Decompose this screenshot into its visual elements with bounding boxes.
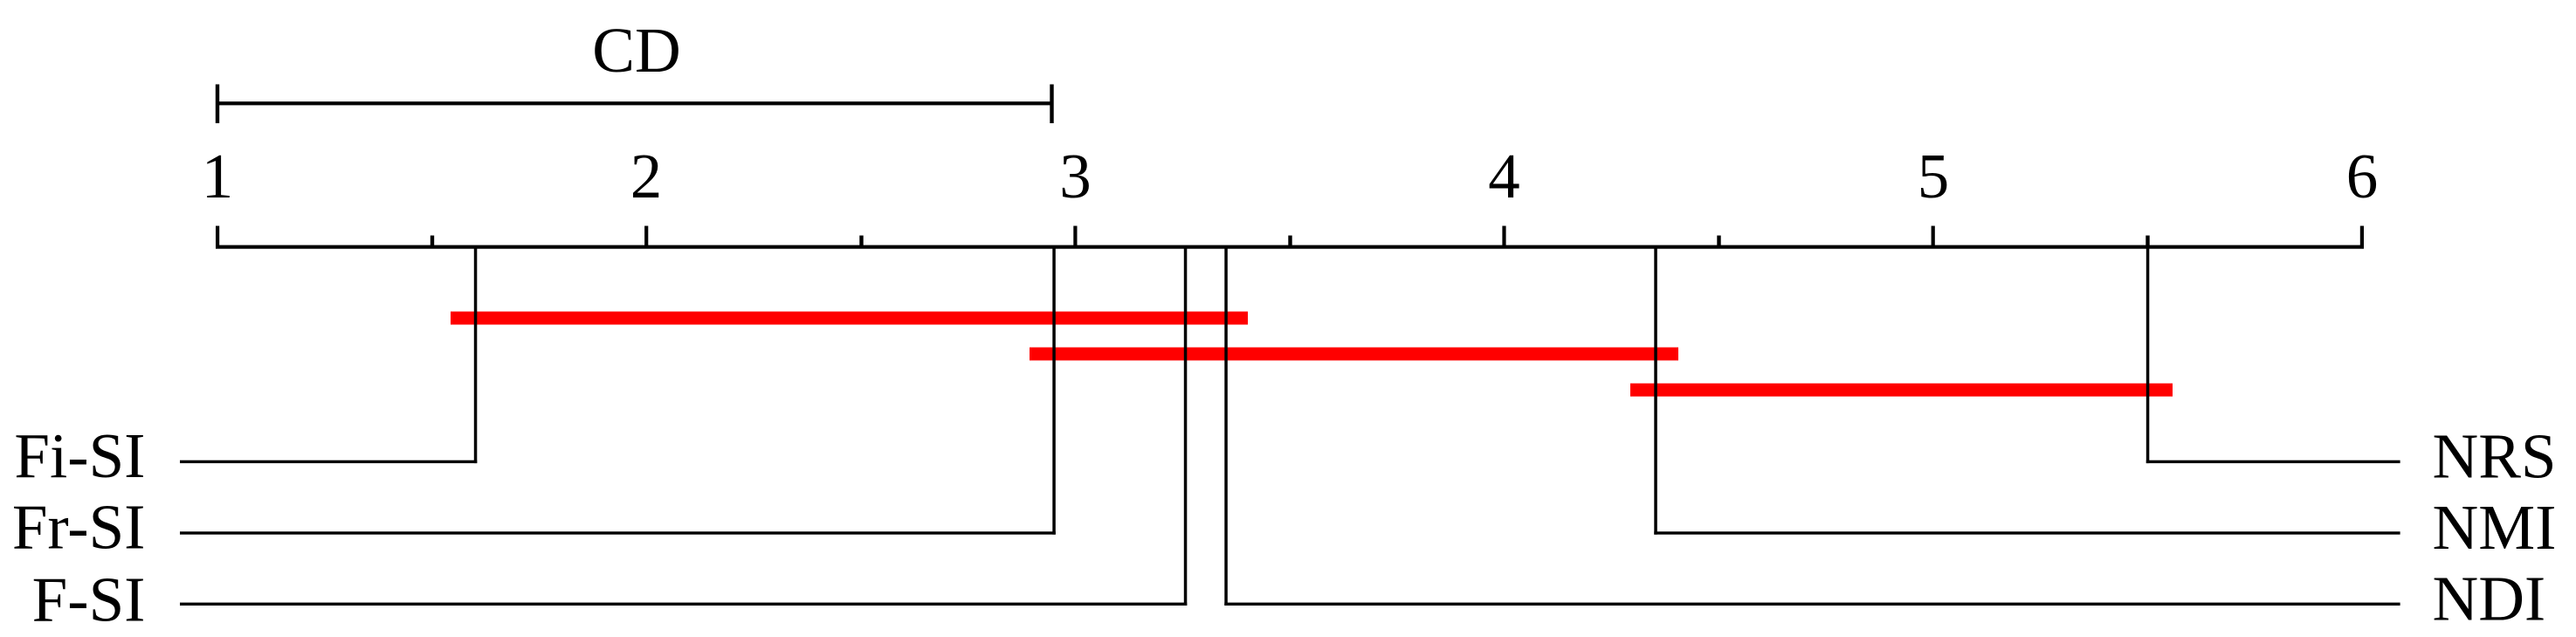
wire NMI vertical drop bbox=[1654, 246, 1657, 535]
wire Fi-SI vertical drop bbox=[474, 246, 478, 463]
red bar 1 (Fi-SI..NDI) bbox=[451, 312, 1248, 325]
CD bracket horizontal line bbox=[216, 101, 1054, 105]
axis main line bbox=[216, 246, 2364, 249]
wire NDI vertical drop bbox=[1224, 246, 1228, 606]
wire F-SI horizontal row bbox=[180, 603, 1187, 606]
svg-text:Fi-SI: Fi-SI bbox=[14, 420, 145, 491]
minor tick 4.5 bbox=[1717, 236, 1720, 247]
wire NRS vertical drop bbox=[2146, 246, 2150, 463]
minor tick 1.5 bbox=[430, 236, 434, 247]
wire Fr-SI vertical drop bbox=[1052, 246, 1056, 535]
svg-text:NDI: NDI bbox=[2433, 564, 2546, 634]
svg-text:5: 5 bbox=[1918, 141, 1950, 211]
minor tick 2.5 bbox=[859, 236, 863, 247]
major tick 2 bbox=[644, 226, 648, 247]
wire Fi-SI horizontal row bbox=[180, 460, 477, 463]
major tick 1 bbox=[216, 226, 219, 247]
minor tick 5.5 bbox=[2146, 236, 2149, 247]
wire F-SI vertical drop bbox=[1184, 246, 1188, 606]
svg-text:NRS: NRS bbox=[2433, 421, 2557, 492]
wire NRS horizontal row bbox=[2146, 460, 2400, 463]
CD bracket left endcap bbox=[216, 85, 219, 124]
svg-text:3: 3 bbox=[1059, 141, 1092, 211]
CD bracket right endcap bbox=[1050, 85, 1053, 124]
major tick 6 bbox=[2360, 226, 2364, 247]
svg-text:4: 4 bbox=[1488, 141, 1520, 211]
major tick 4 bbox=[1502, 226, 1505, 247]
svg-text:1: 1 bbox=[202, 141, 234, 211]
wire NDI horizontal row bbox=[1224, 603, 2400, 606]
svg-text:2: 2 bbox=[630, 141, 663, 211]
svg-text:CD: CD bbox=[592, 15, 680, 86]
wire NMI horizontal row bbox=[1654, 531, 2400, 534]
svg-text:F-SI: F-SI bbox=[32, 564, 146, 634]
red bar 3 (NMI..NRS) bbox=[1630, 384, 2173, 397]
svg-text:NMI: NMI bbox=[2433, 492, 2557, 563]
minor tick 3.5 bbox=[1288, 236, 1291, 247]
wire Fr-SI horizontal row bbox=[180, 531, 1056, 534]
major tick 3 bbox=[1073, 226, 1077, 247]
svg-text:Fr-SI: Fr-SI bbox=[12, 492, 146, 563]
major tick 5 bbox=[1932, 226, 1935, 247]
red bar 2 (Fr-SI..NMI) bbox=[1030, 348, 1678, 361]
svg-text:6: 6 bbox=[2346, 141, 2379, 211]
